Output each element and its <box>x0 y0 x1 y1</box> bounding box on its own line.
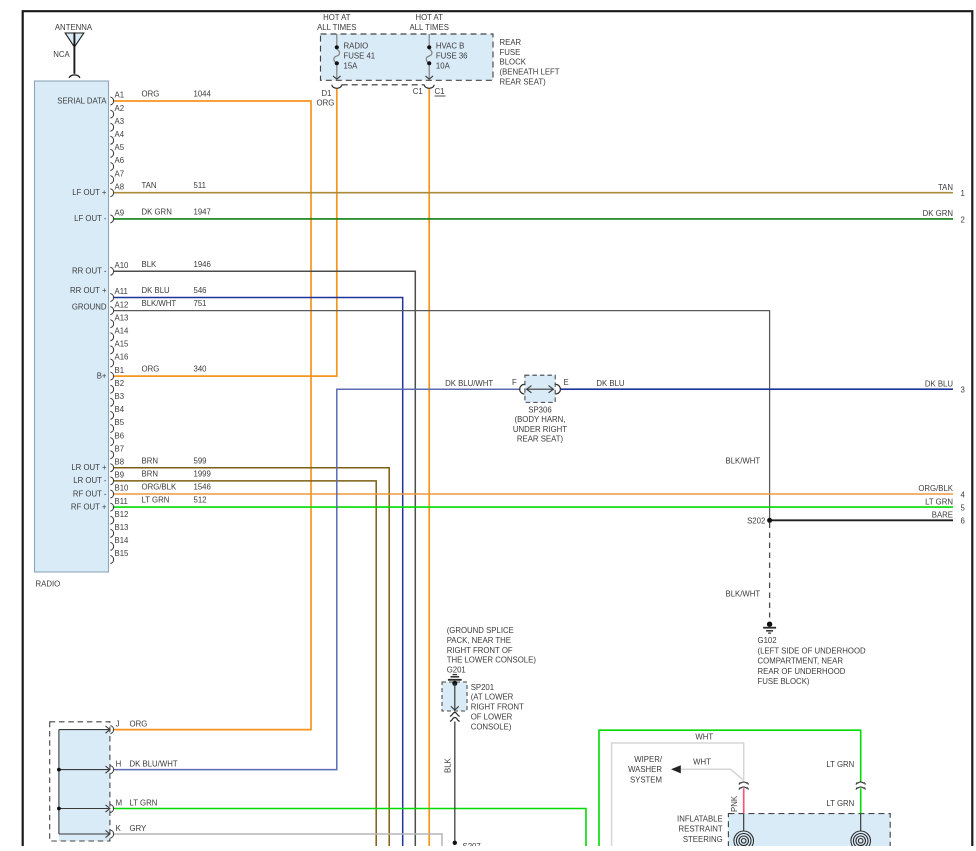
svg-text:4: 4 <box>961 490 966 499</box>
svg-text:E: E <box>564 378 569 387</box>
splice S202 <box>767 518 772 523</box>
wire DK BLU from SP306 to right edge pin 3 <box>560 388 953 390</box>
svg-text:B15: B15 <box>115 549 130 558</box>
svg-text:DK BLU/WHT: DK BLU/WHT <box>130 760 178 769</box>
svg-text:SP201: SP201 <box>471 683 494 692</box>
svg-text:B2: B2 <box>115 379 125 388</box>
svg-text:DK GRN: DK GRN <box>923 209 953 218</box>
connector C1 bump <box>424 85 434 89</box>
svg-text:HOT AT: HOT AT <box>415 13 443 22</box>
svg-text:1999: 1999 <box>194 469 211 478</box>
svg-text:BRN: BRN <box>142 469 158 478</box>
svg-text:HVAC B: HVAC B <box>436 42 464 51</box>
radio pin A8 <box>110 189 113 197</box>
connector D1 bump <box>332 85 342 89</box>
svg-text:J: J <box>116 720 120 729</box>
svg-text:STEERING: STEERING <box>683 835 723 844</box>
svg-text:DK BLU: DK BLU <box>925 379 954 388</box>
svg-text:A16: A16 <box>115 353 129 362</box>
wire WHT loop <box>612 743 744 846</box>
lower connector pin K <box>110 830 113 838</box>
svg-text:546: 546 <box>194 286 207 295</box>
SP306 right arc pin E <box>556 384 561 394</box>
svg-text:REAR: REAR <box>500 38 522 47</box>
svg-text:TAN: TAN <box>938 183 953 192</box>
radio pin B3 <box>110 398 113 406</box>
svg-text:SYSTEM: SYSTEM <box>630 775 662 784</box>
svg-text:LT GRN: LT GRN <box>142 496 170 505</box>
connector face dashed line <box>342 84 425 86</box>
radio pin A2 <box>110 110 113 118</box>
inline connector halves x=860.7 <box>856 782 865 785</box>
lower connector internal wiring <box>58 730 60 834</box>
svg-text:A3: A3 <box>115 117 125 126</box>
svg-text:REAR OF UNDERHOOD: REAR OF UNDERHOOD <box>758 667 846 676</box>
svg-text:ORG: ORG <box>142 90 160 99</box>
svg-text:DK BLU: DK BLU <box>142 286 171 295</box>
svg-text:ORG/BLK: ORG/BLK <box>142 483 177 492</box>
fuse HVAC B fuse 36 <box>428 34 430 45</box>
splice S207 <box>453 841 457 845</box>
wire WHT branch from wiper washer system <box>681 769 744 780</box>
svg-text:A5: A5 <box>115 143 125 152</box>
svg-text:B4: B4 <box>115 405 125 414</box>
wire ORG from fuse C1 down <box>428 88 430 846</box>
wire DK BLU/WHT from SP306 to lower connector H <box>114 389 520 769</box>
radio pin A11 <box>110 294 113 302</box>
wire BLK/WHT dashed S202 to G102 <box>769 523 771 618</box>
svg-text:B7: B7 <box>115 444 125 453</box>
svg-text:A14: A14 <box>115 327 130 336</box>
svg-text:REAR SEAT): REAR SEAT) <box>517 435 564 444</box>
radio pin B12 <box>110 516 113 524</box>
splice SP306 arrows <box>527 388 553 390</box>
svg-text:A6: A6 <box>115 156 125 165</box>
svg-text:10A: 10A <box>436 61 451 70</box>
wire BLK splice SP201 to S207 <box>454 722 456 842</box>
wire ORG 1044 from radio A1 to lower connector J <box>114 101 312 730</box>
svg-text:B5: B5 <box>115 418 125 427</box>
radio pin B9 <box>110 477 113 485</box>
ground G102 <box>767 622 772 627</box>
radio pin B13 <box>110 529 113 537</box>
wire BLK 1946 radio A10 down <box>114 271 416 846</box>
fuse RADIO fuse 41 <box>336 34 338 45</box>
wire LT GRN below inline connector <box>860 788 862 813</box>
wire TAN 511 radio A8 to right edge pin 1 <box>114 192 954 194</box>
SP201 arrow inside box <box>454 683 456 710</box>
svg-text:A9: A9 <box>115 209 125 218</box>
svg-text:COMPARTMENT, NEAR: COMPARTMENT, NEAR <box>758 657 844 666</box>
svg-text:LR OUT -: LR OUT - <box>73 476 107 485</box>
svg-text:INFLATABLE: INFLATABLE <box>677 814 723 823</box>
radio pin A4 <box>110 136 113 144</box>
svg-text:BARE: BARE <box>932 511 953 520</box>
svg-text:599: 599 <box>194 456 207 465</box>
svg-text:1946: 1946 <box>194 260 211 269</box>
svg-text:340: 340 <box>194 365 208 374</box>
svg-text:B13: B13 <box>115 523 129 532</box>
svg-text:1: 1 <box>961 189 965 198</box>
svg-text:ANTENNA: ANTENNA <box>55 23 93 32</box>
radio connector box <box>35 81 109 572</box>
svg-text:RADIO: RADIO <box>36 580 61 589</box>
svg-text:ORG: ORG <box>142 365 160 374</box>
svg-text:HOT AT: HOT AT <box>323 13 351 22</box>
svg-text:ORG: ORG <box>317 99 335 108</box>
svg-text:BLK: BLK <box>142 260 158 269</box>
splice SP201 box <box>442 682 467 711</box>
radio pin A1 <box>110 97 113 105</box>
svg-text:B+: B+ <box>97 371 107 380</box>
svg-text:ALL TIMES: ALL TIMES <box>409 23 448 32</box>
svg-text:3: 3 <box>961 386 965 395</box>
svg-text:B9: B9 <box>115 471 125 480</box>
svg-text:LT GRN: LT GRN <box>826 760 854 769</box>
svg-text:GRY: GRY <box>130 824 148 833</box>
svg-text:M: M <box>116 799 123 808</box>
SP201 crimp symbol <box>450 713 460 717</box>
svg-text:(AT LOWER: (AT LOWER <box>471 693 514 702</box>
svg-text:GROUND: GROUND <box>72 302 107 311</box>
svg-text:ALL TIMES: ALL TIMES <box>317 23 356 32</box>
svg-text:A15: A15 <box>115 340 130 349</box>
junction dot H <box>57 768 61 772</box>
svg-text:C1: C1 <box>435 87 445 96</box>
SP306 left arc pin F <box>520 384 525 394</box>
svg-text:RIGHT FRONT: RIGHT FRONT <box>471 703 524 712</box>
svg-text:RF OUT +: RF OUT + <box>71 502 107 511</box>
radio pin B14 <box>110 542 113 550</box>
wire LT GRN loop to steering wheel coil <box>599 730 861 846</box>
svg-text:RR OUT +: RR OUT + <box>70 286 107 295</box>
clockspring coil x=860.7 <box>851 831 871 851</box>
svg-text:B8: B8 <box>115 458 125 467</box>
inflatable restraint steering wheel box <box>728 814 890 851</box>
svg-text:A2: A2 <box>115 104 125 113</box>
svg-text:B11: B11 <box>115 497 128 506</box>
svg-text:B12: B12 <box>115 510 129 519</box>
svg-text:RESTRAINT: RESTRAINT <box>679 825 723 834</box>
svg-text:DK BLU/WHT: DK BLU/WHT <box>445 379 493 388</box>
coil feed wire left <box>743 814 745 832</box>
svg-text:RF OUT -: RF OUT - <box>73 489 107 498</box>
radio pin B2 <box>110 385 113 393</box>
svg-text:A12: A12 <box>115 300 129 309</box>
radio pin A6 <box>110 163 113 171</box>
svg-text:15A: 15A <box>344 61 359 70</box>
radio pin A13 <box>110 320 113 328</box>
svg-text:B14: B14 <box>115 536 130 545</box>
radio pin A3 <box>110 123 113 131</box>
svg-text:751: 751 <box>194 299 207 308</box>
svg-text:LT GRN: LT GRN <box>925 497 953 506</box>
radio pin B15 <box>110 556 113 564</box>
wire BLK/WHT 751 radio A12 to splice S202 <box>114 311 770 521</box>
svg-text:RR OUT -: RR OUT - <box>72 267 107 276</box>
svg-text:B6: B6 <box>115 431 125 440</box>
svg-text:B1: B1 <box>115 366 125 375</box>
svg-text:LF OUT -: LF OUT - <box>74 214 107 223</box>
svg-text:B10: B10 <box>115 484 130 493</box>
svg-text:G102: G102 <box>758 636 777 645</box>
svg-text:G201: G201 <box>447 665 466 674</box>
svg-text:A8: A8 <box>115 182 125 191</box>
svg-text:1546: 1546 <box>194 483 211 492</box>
wire ORG/BLK 1546 radio B10 to right edge pin 4 <box>114 493 954 495</box>
svg-text:LT GRN: LT GRN <box>130 799 158 808</box>
svg-text:FUSE BLOCK): FUSE BLOCK) <box>758 677 810 686</box>
radio pin A14 <box>110 333 113 341</box>
svg-text:DK GRN: DK GRN <box>142 207 172 216</box>
svg-text:UNDER RIGHT: UNDER RIGHT <box>513 425 567 434</box>
svg-text:OF LOWER: OF LOWER <box>471 713 513 722</box>
ground G201 <box>453 674 457 676</box>
wire ORG from fuse D1 to radio B1 <box>114 88 337 376</box>
svg-text:1044: 1044 <box>194 90 212 99</box>
lower connector pin H <box>110 766 113 774</box>
svg-text:F: F <box>512 378 517 387</box>
svg-text:A7: A7 <box>115 169 125 178</box>
radio pin A15 <box>110 346 113 354</box>
svg-text:WIPER/: WIPER/ <box>634 755 663 764</box>
svg-text:WHT: WHT <box>693 758 711 767</box>
svg-text:WASHER: WASHER <box>628 765 662 774</box>
svg-text:ORG: ORG <box>130 720 148 729</box>
svg-text:A11: A11 <box>115 287 128 296</box>
svg-text:ORG/BLK: ORG/BLK <box>918 484 953 493</box>
wiper washer system arrow <box>671 765 681 773</box>
svg-text:RIGHT FRONT OF: RIGHT FRONT OF <box>447 646 513 655</box>
lower connector pin J <box>110 726 113 734</box>
junction dot M <box>57 807 61 811</box>
rear fuse block box <box>321 34 494 80</box>
svg-text:LF OUT +: LF OUT + <box>72 188 107 197</box>
radio pin B8 <box>110 464 113 472</box>
wire DK BLU 546 radio A11 down <box>114 298 403 847</box>
svg-text:BLK: BLK <box>444 757 453 773</box>
svg-text:SP306: SP306 <box>528 405 551 414</box>
svg-text:BLK/WHT: BLK/WHT <box>142 299 177 308</box>
svg-text:WHT: WHT <box>695 732 713 741</box>
wire DK GRN 1947 radio A9 to right edge pin 2 <box>114 218 954 220</box>
splice SP306 box <box>525 375 555 402</box>
svg-text:SERIAL DATA: SERIAL DATA <box>57 96 107 105</box>
svg-text:(GROUND SPLICE: (GROUND SPLICE <box>447 626 514 635</box>
svg-text:A10: A10 <box>115 261 130 270</box>
svg-text:BLOCK: BLOCK <box>500 58 527 67</box>
lower connector pin M <box>110 805 113 813</box>
radio pin A16 <box>110 359 113 367</box>
radio pin B11 <box>110 503 113 511</box>
svg-text:A13: A13 <box>115 313 129 322</box>
svg-text:DK BLU: DK BLU <box>596 379 625 388</box>
radio pin B7 <box>110 451 113 459</box>
wire PNK below inline connector <box>743 788 745 813</box>
svg-text:BLK/WHT: BLK/WHT <box>726 590 761 599</box>
svg-text:A1: A1 <box>115 91 125 100</box>
svg-text:5: 5 <box>961 504 966 513</box>
wire BRN 599 radio B8 down <box>114 468 390 846</box>
svg-text:A4: A4 <box>115 130 125 139</box>
svg-text:LT GRN: LT GRN <box>826 799 854 808</box>
wire GRY lower connector K down <box>114 834 442 846</box>
svg-text:512: 512 <box>194 496 207 505</box>
wire BARE from S202 to right edge pin 6 <box>770 519 953 521</box>
wire BRN 1999 radio B9 down <box>114 481 377 846</box>
svg-text:THE LOWER CONSOLE): THE LOWER CONSOLE) <box>447 656 537 665</box>
svg-text:TAN: TAN <box>142 181 157 190</box>
svg-text:NCA: NCA <box>53 50 70 59</box>
radio pin B4 <box>110 411 113 419</box>
svg-text:FUSE 41: FUSE 41 <box>344 52 376 61</box>
radio pin B10 <box>110 490 113 498</box>
svg-text:S207: S207 <box>463 842 481 846</box>
svg-text:(LEFT SIDE OF UNDERHOOD: (LEFT SIDE OF UNDERHOOD <box>758 646 867 655</box>
clockspring coil x=743.7 <box>734 831 754 851</box>
svg-text:(BENEATH LEFT: (BENEATH LEFT <box>500 68 560 77</box>
svg-text:2: 2 <box>961 215 965 224</box>
svg-text:REAR SEAT): REAR SEAT) <box>500 78 547 87</box>
svg-text:RADIO: RADIO <box>344 42 369 51</box>
svg-text:BRN: BRN <box>142 456 158 465</box>
svg-text:D1: D1 <box>322 89 332 98</box>
svg-text:C1: C1 <box>413 87 423 96</box>
wire LT GRN lower connector M down right <box>114 809 586 847</box>
svg-text:B3: B3 <box>115 392 125 401</box>
svg-text:BLK/WHT: BLK/WHT <box>726 457 761 466</box>
svg-text:H: H <box>116 760 122 769</box>
coil feed wire right <box>860 814 862 832</box>
radio pin A7 <box>110 176 113 184</box>
inline connector halves x=743.7 <box>739 782 748 785</box>
lower connector box <box>59 730 110 841</box>
svg-text:FUSE 36: FUSE 36 <box>436 52 468 61</box>
radio pin A12 <box>110 307 113 315</box>
svg-text:511: 511 <box>194 181 206 190</box>
radio pin A9 <box>110 215 113 223</box>
svg-text:CONSOLE): CONSOLE) <box>471 722 512 731</box>
svg-text:PACK, NEAR THE: PACK, NEAR THE <box>447 636 511 645</box>
svg-text:LR OUT +: LR OUT + <box>71 463 107 472</box>
radio pin A5 <box>110 149 113 157</box>
radio pin B1 <box>110 372 113 380</box>
radio pin B5 <box>110 425 113 433</box>
svg-text:(BODY HARN,: (BODY HARN, <box>515 415 566 424</box>
radio pin B6 <box>110 438 113 446</box>
svg-text:PNK: PNK <box>730 795 739 812</box>
svg-text:K: K <box>116 824 122 833</box>
svg-text:FUSE: FUSE <box>500 48 521 57</box>
wire LT GRN 512 radio B11 to right edge pin 5 <box>114 506 954 508</box>
svg-text:S202: S202 <box>747 516 765 525</box>
radio pin A10 <box>110 267 113 275</box>
svg-text:1947: 1947 <box>194 207 211 216</box>
svg-text:6: 6 <box>961 517 965 526</box>
